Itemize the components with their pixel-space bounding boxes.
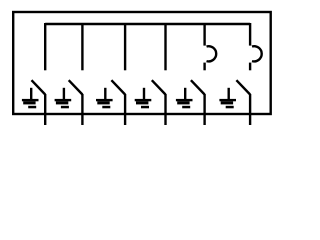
ground E4 stem — [143, 88, 145, 100]
ground E1 stem — [30, 88, 32, 100]
wire outgoing 5 — [203, 94, 205, 125]
switch S2 blade — [69, 80, 83, 94]
switch S3 blade — [111, 80, 125, 94]
ground E4 symbol — [135, 99, 152, 108]
ground E2 symbol — [55, 99, 72, 108]
wire feeder 5 lower stub — [203, 63, 205, 71]
wire outgoing 2 — [81, 94, 83, 125]
ground E3 symbol — [96, 99, 113, 108]
ground E3 stem — [104, 88, 106, 100]
breaker K1 arc — [207, 46, 217, 61]
ground E6 symbol — [219, 99, 236, 108]
wire feeder 6 drop — [249, 23, 251, 46]
ground E6 stem — [227, 88, 229, 100]
wire outgoing 1 — [44, 94, 46, 125]
wire feeder 4 drop — [164, 23, 166, 70]
ground E5 symbol — [176, 99, 193, 108]
wire feeder 1 drop — [44, 23, 46, 70]
wire outgoing 3 — [124, 94, 126, 125]
ground E2 stem — [63, 88, 65, 100]
breaker K2 arc — [252, 46, 262, 61]
switch S4 blade — [152, 80, 166, 94]
wire feeder 6 lower stub — [249, 63, 251, 71]
ground E1 symbol — [22, 99, 39, 108]
switch S1 blade — [32, 80, 46, 94]
wire feeder 3 drop — [124, 23, 126, 70]
switch S5 blade — [191, 80, 205, 94]
busbar — [45, 23, 250, 25]
wire outgoing 4 — [164, 94, 166, 125]
switch S6 blade — [236, 80, 250, 94]
enclosure box — [13, 12, 271, 114]
wire feeder 2 drop — [81, 23, 83, 70]
wire outgoing 6 — [249, 94, 251, 125]
ground E5 stem — [184, 88, 186, 100]
wire feeder 5 drop — [203, 23, 205, 46]
